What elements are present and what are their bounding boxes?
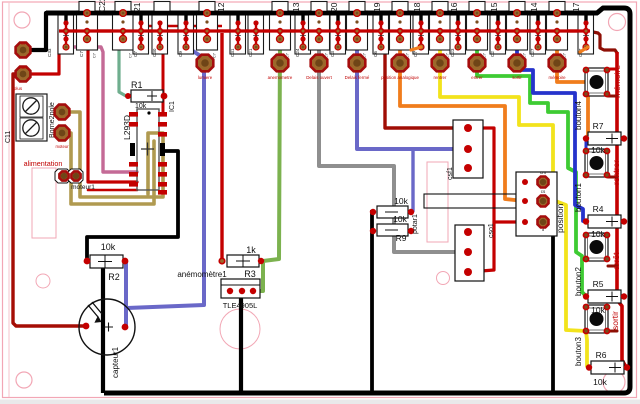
capacitor C27 bbox=[490, 15, 506, 54]
red trace C7 pad down to IC1 bbox=[88, 40, 137, 182]
capacitor C13 bbox=[295, 15, 311, 54]
svg-text:R5: R5 bbox=[593, 279, 604, 289]
svg-text:10k: 10k bbox=[394, 196, 408, 206]
red right rail bbox=[617, 52, 626, 367]
svg-text:C27: C27 bbox=[530, 48, 535, 57]
svg-text:C7: C7 bbox=[128, 52, 133, 58]
svg-text:C2: C2 bbox=[490, 51, 495, 57]
svg-text:1k: 1k bbox=[246, 245, 256, 255]
pushbutton bouton2 bbox=[585, 233, 608, 261]
svg-text:potar1: potar1 bbox=[412, 214, 419, 234]
sensor TLE4905L bbox=[221, 279, 260, 298]
capacitor C7 bbox=[77, 11, 98, 50]
red stub bouton2 bbox=[608, 265, 617, 268]
pushbutton bouton4 bbox=[585, 68, 608, 96]
teal wire C21 to R1 bbox=[119, 44, 126, 96]
pads C22 bbox=[119, 9, 133, 58]
capacitor C30 bbox=[152, 15, 168, 54]
red trace bus to battery pad bbox=[23, 31, 59, 74]
svg-text:anémomètre1: anémomètre1 bbox=[177, 270, 227, 279]
red stub R7 bbox=[617, 138, 624, 141]
violet wire delais-ferme to csf1 bbox=[357, 42, 466, 149]
svg-text:10k: 10k bbox=[591, 229, 605, 239]
orange stub C17 bbox=[580, 47, 588, 52]
red trace branch to position bbox=[494, 220, 524, 223]
capacitor C2 bbox=[450, 15, 466, 54]
connector pad mémoire bbox=[549, 55, 566, 72]
capacitor C16 bbox=[430, 11, 451, 50]
capacitor C18b bbox=[413, 15, 429, 54]
pushbutton bouton3 bbox=[585, 305, 608, 333]
svg-text:C33: C33 bbox=[47, 48, 52, 57]
pads C33 bbox=[62, 13, 69, 51]
svg-text:C7: C7 bbox=[133, 51, 138, 57]
connector position bbox=[516, 172, 557, 236]
pads C17 bbox=[582, 13, 589, 51]
mounting hole top-left bbox=[14, 12, 30, 28]
khaki wire alimentation loop B bbox=[62, 133, 154, 204]
capacitor C21 bbox=[133, 15, 149, 54]
svg-text:C11: C11 bbox=[5, 131, 12, 143]
svg-text:position: position bbox=[555, 203, 565, 233]
svg-text:C21: C21 bbox=[248, 48, 253, 57]
blue wire R2 to capteur1 bbox=[124, 262, 128, 327]
red trace header y26 bbox=[126, 25, 222, 27]
black header bus overlay bbox=[46, 11, 598, 15]
pads C18 bbox=[396, 9, 410, 58]
svg-text:csf1: csf1 bbox=[447, 167, 454, 180]
silkscreen circle middle bbox=[437, 272, 450, 285]
svg-text:arrêt: arrêt bbox=[611, 252, 621, 270]
khaki wire alimentation loop A bbox=[62, 112, 163, 197]
svg-text:entrer: entrer bbox=[471, 75, 483, 80]
svg-text:10k: 10k bbox=[591, 145, 605, 155]
black wire IC1 to R2 bbox=[87, 151, 178, 258]
svg-text:capteur1: capteur1 bbox=[111, 346, 120, 378]
svg-text:position analogique: position analogique bbox=[381, 75, 419, 80]
connector pad Delais fermé bbox=[349, 55, 366, 72]
svg-text:moteur: moteur bbox=[55, 144, 69, 149]
pads C12 bbox=[234, 13, 241, 51]
pads C13 bbox=[299, 13, 306, 51]
silkscreen rect alimentation bbox=[32, 168, 56, 238]
gray wire delais-ouvert to cso1 bbox=[319, 42, 466, 252]
svg-text:R6: R6 bbox=[596, 350, 607, 360]
svg-text:19: 19 bbox=[372, 2, 382, 12]
svg-text:d: d bbox=[542, 227, 544, 232]
capacitor C31 bbox=[248, 15, 264, 54]
svg-text:TLE4905L: TLE4905L bbox=[223, 301, 258, 310]
red trace csf1 to cso1 bbox=[468, 128, 494, 272]
pads C2 bbox=[454, 13, 461, 51]
pads C15 bbox=[473, 9, 487, 58]
svg-text:10k: 10k bbox=[393, 214, 407, 224]
header top boxes bbox=[79, 2, 565, 15]
pads C19b bbox=[377, 13, 384, 51]
bottom gray strip bbox=[0, 400, 640, 404]
orange wire bouton4 to R7 bbox=[586, 96, 588, 138]
capacitor C10 bbox=[309, 11, 330, 50]
capacitor C15 bbox=[467, 11, 488, 50]
red trace moteur to IC1 bbox=[88, 189, 137, 192]
terminal block C11 bbox=[16, 94, 47, 141]
connector pad rentrer bbox=[432, 55, 449, 72]
pads C21 bbox=[137, 13, 144, 51]
svg-text:21: 21 bbox=[132, 2, 142, 12]
svg-text:cm: cm bbox=[540, 170, 546, 175]
svg-text:C7: C7 bbox=[79, 51, 84, 57]
svg-text:17: 17 bbox=[571, 2, 581, 12]
black wire TLE4905 to ground bbox=[239, 293, 243, 393]
svg-text:Delais fermé: Delais fermé bbox=[345, 75, 370, 80]
svg-text:bouton4: bouton4 bbox=[574, 101, 583, 130]
terminal pads bbox=[55, 105, 70, 120]
capacitor C24 bbox=[270, 11, 291, 50]
svg-text:12: 12 bbox=[216, 2, 226, 12]
pads C14 bbox=[513, 9, 527, 58]
svg-text:sortir: sortir bbox=[610, 311, 620, 330]
svg-text:cso1: cso1 bbox=[488, 223, 495, 238]
blue link R7 to bouton1 bbox=[585, 141, 588, 176]
capacitor C17 bbox=[578, 15, 594, 54]
svg-text:14: 14 bbox=[529, 2, 539, 12]
pads C26 bbox=[553, 9, 567, 58]
svg-text:C9: C9 bbox=[178, 51, 183, 57]
connector pad anemometre bbox=[272, 55, 289, 72]
transistor capteur1 bbox=[79, 299, 135, 355]
svg-text:Delais ouvert: Delais ouvert bbox=[306, 75, 332, 80]
svg-text:R4: R4 bbox=[593, 204, 604, 214]
mounting hole bottom-left bbox=[16, 372, 32, 388]
connector pad entrer bbox=[469, 55, 486, 72]
connector pad sortir bbox=[509, 55, 526, 72]
red trace bus down to csf1 bbox=[385, 33, 466, 128]
capacitor C9 bbox=[178, 15, 194, 54]
svg-text:C7: C7 bbox=[413, 51, 418, 57]
pushbutton bouton1 bbox=[585, 149, 608, 177]
orange wire memoire to bouton4/R7 bbox=[557, 42, 586, 82]
red trace right rail resistors bbox=[608, 68, 617, 71]
svg-text:13: 13 bbox=[291, 2, 301, 12]
red trace bus down to R3 bbox=[220, 33, 223, 261]
svg-text:16: 16 bbox=[449, 2, 459, 12]
magenta wire C33 to IC1 bbox=[66, 47, 137, 172]
green wire anemometre down bbox=[263, 42, 280, 261]
red stub R5 bbox=[617, 295, 624, 298]
svg-text:anemometre: anemometre bbox=[268, 75, 293, 80]
svg-text:18: 18 bbox=[412, 2, 422, 12]
capacitor C25 bbox=[530, 15, 546, 54]
pads C24 bbox=[276, 9, 290, 58]
capacitor C18 bbox=[390, 11, 411, 50]
svg-text:C23: C23 bbox=[450, 48, 455, 57]
pads C7 bbox=[83, 9, 97, 58]
red stub bouton1 bbox=[608, 176, 617, 179]
svg-text:plus: plus bbox=[14, 86, 23, 91]
svg-text:C3: C3 bbox=[330, 51, 335, 57]
svg-text:R2: R2 bbox=[108, 272, 120, 282]
red trace left rail down to capteur1 bbox=[13, 74, 86, 326]
red trace top-right corner bbox=[588, 31, 617, 53]
svg-text:mémoire: mémoire bbox=[612, 65, 622, 98]
capacitor C19b bbox=[373, 15, 389, 54]
svg-text:bouton2: bouton2 bbox=[574, 267, 583, 296]
connector pad Delais ouvert bbox=[311, 55, 328, 72]
svg-text:R7: R7 bbox=[593, 121, 604, 131]
svg-text:10k: 10k bbox=[101, 242, 116, 252]
silkscreen circle TLE bbox=[220, 309, 260, 349]
silkscreen rect csf bbox=[427, 162, 448, 242]
pads C10 bbox=[315, 9, 329, 58]
svg-text:batt: batt bbox=[19, 65, 27, 70]
pads C25 bbox=[534, 13, 541, 51]
green wire R3 to anemometre1 bbox=[253, 261, 263, 291]
red power bus top bbox=[59, 29, 590, 32]
red trace bus down to R1/IC1 bbox=[162, 31, 165, 114]
svg-text:lumiere: lumiere bbox=[198, 75, 213, 80]
pads C31 bbox=[252, 20, 259, 50]
svg-text:cs: cs bbox=[541, 189, 546, 194]
capacitor C8 bbox=[197, 11, 218, 50]
svg-text:L293D: L293D bbox=[122, 115, 132, 140]
svg-text:C31: C31 bbox=[230, 48, 235, 57]
svg-text:rentrer: rentrer bbox=[434, 75, 447, 80]
svg-text:10k: 10k bbox=[591, 305, 605, 315]
connector pad lumiere bbox=[197, 55, 214, 72]
svg-text:20: 20 bbox=[329, 2, 339, 12]
svg-text:15: 15 bbox=[489, 2, 499, 12]
svg-text:bouton3: bouton3 bbox=[574, 337, 583, 366]
black wire potar to ground bbox=[370, 210, 374, 393]
svg-text:mémoire: mémoire bbox=[548, 75, 566, 80]
black wire capteur1 to ground bbox=[101, 266, 105, 393]
svg-text:R9: R9 bbox=[396, 233, 407, 243]
sensor cso1 bbox=[455, 225, 484, 281]
capacitor C33 bbox=[58, 15, 74, 54]
moteur1 connector bbox=[55, 169, 70, 183]
header labels bbox=[97, 0, 581, 12]
svg-text:sortir: sortir bbox=[512, 75, 522, 80]
svg-text:C22: C22 bbox=[97, 0, 107, 12]
svg-text:C30: C30 bbox=[152, 48, 157, 57]
orange stub 18 bbox=[411, 47, 421, 50]
red stub bouton3 bbox=[608, 330, 617, 333]
red stub bouton4 bbox=[608, 95, 617, 98]
capacitor C19 bbox=[347, 11, 368, 50]
pads C20 bbox=[334, 13, 341, 51]
capacitor C22 bbox=[113, 11, 134, 50]
pads C8 bbox=[203, 9, 217, 58]
pads C18b bbox=[417, 13, 424, 51]
svg-text:R3: R3 bbox=[244, 269, 256, 279]
connector pad position analogique bbox=[392, 55, 409, 72]
pad cf bbox=[16, 43, 31, 58]
capacitor C26 bbox=[547, 11, 568, 50]
capacitor C20 bbox=[330, 15, 346, 54]
capacitor C12 bbox=[230, 15, 246, 54]
svg-text:C6: C6 bbox=[373, 51, 378, 57]
pads C30 bbox=[156, 20, 163, 50]
red bus overlay bbox=[59, 29, 590, 32]
svg-text:alimentation: alimentation bbox=[24, 159, 63, 168]
yellow wire rentrer to bouton3/R6 bbox=[440, 42, 587, 366]
mounting hole top-right bbox=[609, 14, 626, 31]
svg-text:moteur1: moteur1 bbox=[71, 184, 95, 191]
black wire battery minus bbox=[30, 13, 46, 50]
svg-text:IC1: IC1 bbox=[169, 101, 176, 112]
svg-text:C24: C24 bbox=[295, 48, 300, 57]
pad batt bbox=[16, 67, 31, 82]
red stub R4 bbox=[617, 221, 624, 224]
svg-text:rentrer: rentrer bbox=[611, 160, 621, 185]
silkscreen circle left bbox=[36, 274, 50, 288]
green wire entrer to bouton2 bbox=[477, 42, 586, 296]
pads C16 bbox=[436, 9, 450, 58]
blue wire sortir to R4 bbox=[517, 42, 585, 221]
orange wire position-analogique to position bbox=[400, 42, 524, 201]
violet branch to potar bbox=[411, 149, 414, 211]
black wire position to ground bbox=[543, 182, 553, 391]
sensor csf1 bbox=[453, 120, 483, 178]
svg-text:bouton1: bouton1 bbox=[574, 183, 583, 212]
pads C19 bbox=[353, 9, 367, 58]
svg-text:R1: R1 bbox=[131, 80, 143, 90]
blue wire lumiere down bbox=[126, 47, 204, 308]
slider body bbox=[424, 194, 516, 208]
svg-text:10k: 10k bbox=[593, 377, 607, 387]
pads C27 bbox=[494, 13, 501, 51]
capacitor C14 bbox=[507, 11, 528, 50]
mounting hole bottom-right bbox=[603, 371, 625, 393]
pads C9 bbox=[182, 13, 189, 51]
svg-text:C7: C7 bbox=[92, 52, 97, 58]
